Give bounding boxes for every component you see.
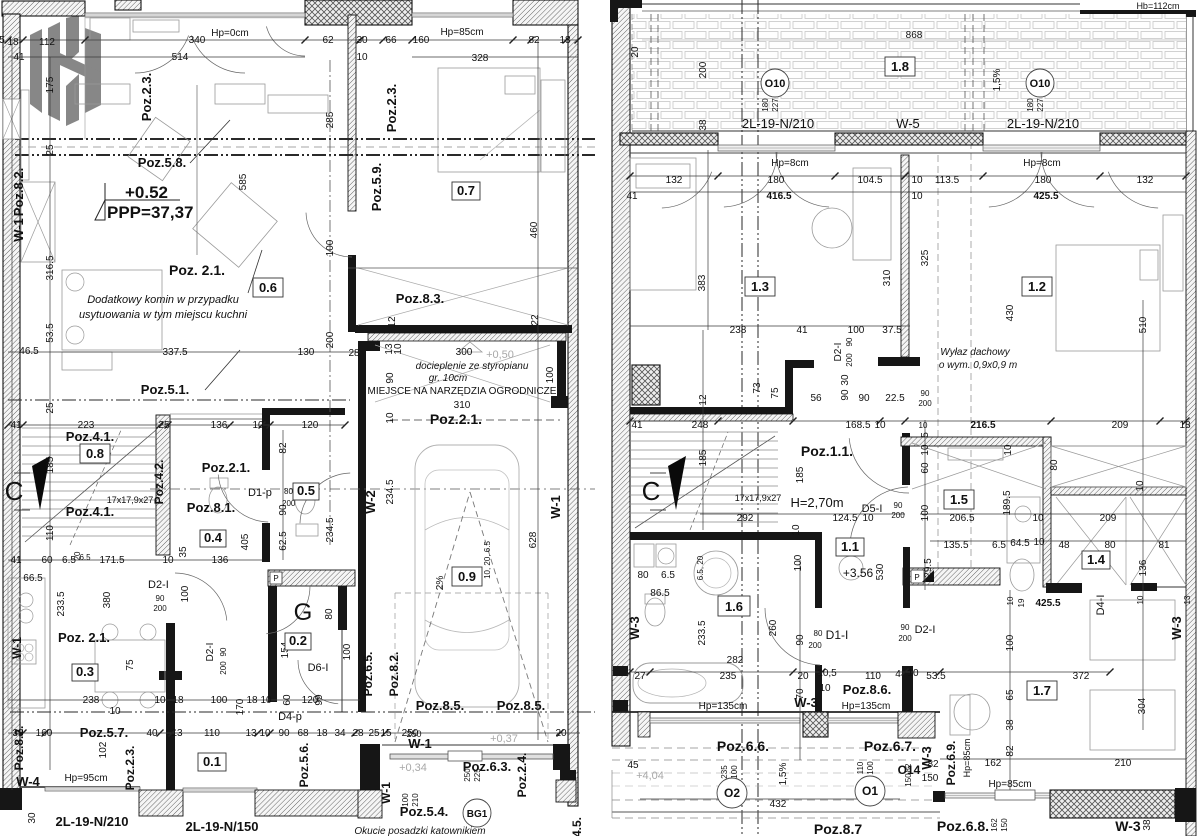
svg-text:Poz.8.3.: Poz.8.3. — [396, 291, 444, 306]
svg-text:28: 28 — [352, 728, 364, 739]
wall left of 1.5 with door D5 — [903, 547, 910, 608]
north arrow C right — [668, 456, 686, 510]
svg-text:100: 100 — [401, 793, 410, 807]
wall x902 bottom — [902, 666, 913, 712]
svg-text:Poz.8.2.: Poz.8.2. — [11, 168, 26, 216]
bed room 0.7 — [438, 68, 540, 172]
svg-text:238: 238 — [83, 695, 100, 706]
1.4 wardrobe crosses — [1056, 497, 1126, 585]
roof symbol small — [458, 342, 482, 352]
svg-text:120: 120 — [302, 420, 319, 431]
svg-text:10, 20, 6.5: 10, 20, 6.5 — [483, 541, 492, 579]
svg-text:Poz.8.5.: Poz.8.5. — [416, 698, 464, 713]
wall below storage — [630, 407, 793, 414]
svg-text:60: 60 — [41, 555, 53, 566]
svg-text:100: 100 — [342, 643, 353, 660]
svg-text:5: 5 — [920, 432, 931, 438]
svg-text:Hb=112cm: Hb=112cm — [1136, 1, 1179, 11]
svg-text:10: 10 — [862, 513, 874, 524]
svg-text:200: 200 — [898, 634, 912, 643]
svg-text:90: 90 — [921, 389, 930, 398]
svg-text:W-3: W-3 — [1169, 616, 1184, 640]
svg-text:Poz.5.7.: Poz.5.7. — [80, 725, 128, 740]
left plan top windows — [85, 13, 305, 17]
svg-text:80: 80 — [324, 608, 335, 620]
section line bottom — [10, 711, 595, 713]
svg-text:100: 100 — [211, 695, 228, 706]
svg-text:200: 200 — [891, 511, 905, 520]
svg-text:2L-19-N/150: 2L-19-N/150 — [186, 819, 259, 834]
svg-text:25: 25 — [45, 144, 56, 156]
svg-text:316.5: 316.5 — [45, 255, 56, 280]
svg-text:Poz.4.1.: Poz.4.1. — [66, 429, 114, 444]
svg-text:6.5: 6.5 — [661, 570, 675, 581]
svg-text:510: 510 — [1138, 316, 1149, 333]
svg-text:56: 56 — [810, 393, 822, 404]
vertical wall x1043 — [1043, 437, 1051, 587]
svg-text:68: 68 — [297, 728, 309, 739]
svg-text:10: 10 — [356, 52, 368, 63]
svg-text:0.3: 0.3 — [76, 664, 94, 679]
svg-text:233.5: 233.5 — [56, 591, 67, 616]
svg-text:90: 90 — [795, 634, 806, 646]
svg-text:160: 160 — [413, 35, 430, 46]
svg-text:75: 75 — [770, 387, 781, 399]
svg-text:6.5: 6.5 — [992, 540, 1006, 551]
svg-text:W-1: W-1 — [548, 495, 563, 519]
svg-text:W-5: W-5 — [896, 116, 920, 131]
svg-text:233.5: 233.5 — [697, 620, 708, 645]
balcony X room wall — [1051, 487, 1186, 495]
svg-text:90: 90 — [156, 594, 165, 603]
svg-text:100: 100 — [793, 554, 804, 571]
storage X tool niche — [375, 345, 550, 402]
svg-text:0.1: 0.1 — [203, 754, 221, 769]
svg-text:0.7: 0.7 — [457, 183, 475, 198]
svg-text:10: 10 — [920, 444, 931, 456]
svg-text:O10: O10 — [1030, 78, 1051, 90]
svg-text:+0,50: +0,50 — [486, 349, 514, 361]
svg-text:62: 62 — [322, 35, 334, 46]
svg-text:200: 200 — [153, 604, 167, 613]
stairs left plan — [22, 428, 156, 536]
svg-text:Hp=85cm: Hp=85cm — [962, 739, 972, 778]
svg-text:416.5: 416.5 — [766, 191, 791, 202]
svg-text:285: 285 — [325, 111, 336, 128]
kitchen counter 1.5 — [903, 568, 1000, 585]
svg-text:+3.56: +3.56 — [843, 566, 874, 580]
roof hatch area — [632, 14, 1186, 131]
svg-text:22: 22 — [530, 314, 541, 326]
svg-text:37.5: 37.5 — [882, 325, 902, 336]
room top walls thin — [630, 152, 1186, 154]
svg-text:Poz.2.4.: Poz.2.4. — [515, 753, 529, 798]
svg-text:90: 90 — [219, 647, 228, 656]
right plan furniture bed 1.3 — [630, 158, 696, 290]
svg-text:13: 13 — [1183, 595, 1192, 604]
svg-text:Poz.5.1.: Poz.5.1. — [141, 382, 189, 397]
svg-text:82: 82 — [904, 763, 913, 772]
svg-text:20: 20 — [555, 728, 567, 739]
svg-text:100: 100 — [180, 585, 191, 602]
table room 0.3 — [95, 640, 165, 692]
dim rows left — [8, 351, 360, 353]
svg-text:4: 4 — [895, 669, 901, 680]
svg-text:D2-I: D2-I — [833, 343, 844, 362]
svg-text:86.5: 86.5 — [650, 588, 670, 599]
svg-text:Hp=0cm: Hp=0cm — [211, 28, 249, 39]
svg-text:1.6: 1.6 — [725, 599, 743, 614]
svg-text:Poz.6.5.: Poz.6.5. — [361, 652, 375, 697]
garage west wall — [358, 341, 366, 712]
wall top of 1.5 — [901, 437, 1051, 446]
svg-text:100: 100 — [1005, 634, 1016, 651]
svg-text:150: 150 — [1000, 818, 1009, 832]
svg-text:41: 41 — [631, 420, 643, 431]
svg-text:38: 38 — [1005, 719, 1016, 731]
left plan bottom walls — [20, 786, 140, 788]
svg-text:383: 383 — [697, 274, 708, 291]
svg-text:250: 250 — [463, 768, 472, 782]
svg-text:18: 18 — [172, 695, 184, 706]
svg-text:Okucie posadzki katownikiem: Okucie posadzki katownikiem — [354, 826, 485, 836]
svg-text:Poz.8.2.: Poz.8.2. — [387, 652, 401, 697]
svg-text:60: 60 — [282, 694, 293, 706]
svg-text:10: 10 — [393, 343, 404, 355]
north arrow C left — [32, 456, 50, 510]
hall walls — [262, 408, 345, 415]
svg-text:o wym. 0,9x0,9 m: o wym. 0,9x0,9 m — [939, 360, 1017, 371]
svg-text:20: 20 — [73, 551, 82, 560]
svg-text:BG1: BG1 — [467, 809, 488, 820]
svg-text:Poz.6.9.: Poz.6.9. — [944, 741, 958, 786]
svg-text:100: 100 — [325, 239, 336, 256]
svg-text:200: 200 — [219, 661, 228, 675]
svg-text:868: 868 — [906, 30, 923, 41]
svg-text:C: C — [642, 476, 661, 506]
svg-text:W-2: W-2 — [363, 490, 378, 514]
right plan top-right wall — [1080, 10, 1196, 17]
svg-text:20: 20 — [630, 46, 641, 58]
svg-text:41: 41 — [13, 52, 25, 63]
svg-text:12: 12 — [387, 316, 398, 328]
svg-text:gr. 10cm: gr. 10cm — [429, 373, 468, 384]
svg-text:340: 340 — [189, 35, 206, 46]
svg-text:Hp=85cm: Hp=85cm — [440, 27, 483, 38]
svg-text:160: 160 — [36, 728, 53, 739]
bathtub 1.6 — [633, 663, 743, 703]
svg-text:O2: O2 — [724, 786, 740, 800]
right plan top corner — [610, 0, 642, 8]
svg-text:D2-I: D2-I — [148, 579, 169, 591]
svg-text:0.4: 0.4 — [204, 530, 223, 545]
svg-text:1.3: 1.3 — [751, 279, 769, 294]
balcony doors windows — [718, 145, 835, 151]
svg-text:15: 15 — [380, 728, 392, 739]
svg-text:Poz.8.1.: Poz.8.1. — [187, 500, 235, 515]
svg-text:210: 210 — [411, 793, 420, 807]
svg-text:73: 73 — [752, 382, 763, 394]
svg-text:6.5, 20: 6.5, 20 — [696, 555, 705, 580]
svg-text:328: 328 — [472, 53, 489, 64]
svg-text:90: 90 — [901, 623, 910, 632]
svg-text:185: 185 — [45, 456, 56, 473]
svg-text:30: 30 — [840, 374, 851, 386]
svg-text:Poz.8.7: Poz.8.7 — [814, 821, 862, 836]
chimney dashes down — [937, 155, 939, 585]
left wall end blocks — [613, 666, 628, 676]
svg-text:150: 150 — [904, 773, 913, 787]
svg-text:docieplenie ze styropianu: docieplenie ze styropianu — [416, 361, 529, 372]
svg-text:209: 209 — [1112, 420, 1129, 431]
svg-text:20: 20 — [797, 671, 809, 682]
svg-text:Hp=135cm: Hp=135cm — [699, 701, 748, 712]
svg-text:130: 130 — [298, 347, 315, 358]
svg-text:Hp=135cm: Hp=135cm — [842, 701, 891, 712]
left interior wall w1 Poz2.3 divider — [348, 15, 356, 211]
left wall w2 — [348, 255, 356, 332]
svg-text:18: 18 — [559, 35, 571, 46]
svg-text:380: 380 — [102, 591, 113, 608]
svg-text:D1-I: D1-I — [826, 628, 849, 642]
svg-text:136: 136 — [211, 420, 228, 431]
svg-text:1.5: 1.5 — [950, 492, 968, 507]
left plan exterior walls — [2, 1, 85, 16]
svg-text:Poz.5.8.: Poz.5.8. — [138, 155, 186, 170]
svg-text:Poz.2.1.: Poz.2.1. — [430, 411, 482, 427]
svg-text:18: 18 — [1179, 420, 1191, 431]
svg-text:W-3: W-3 — [794, 695, 818, 710]
svg-text:Hp=85cm: Hp=85cm — [988, 779, 1031, 790]
svg-text:80: 80 — [284, 487, 293, 496]
door arcs right plan — [849, 438, 909, 493]
svg-text:310: 310 — [882, 269, 893, 286]
svg-text:80: 80 — [1049, 459, 1060, 471]
svg-text:Poz.5.6.: Poz.5.6. — [297, 743, 311, 788]
svg-text:162: 162 — [990, 818, 999, 832]
svg-text:4.5.: 4.5. — [570, 817, 584, 836]
tool niche east wall — [557, 341, 566, 402]
svg-text:1.2: 1.2 — [1028, 279, 1046, 294]
svg-text:110: 110 — [204, 728, 220, 739]
svg-text:Poz.4.1.: Poz.4.1. — [66, 504, 114, 519]
svg-text:185: 185 — [698, 449, 709, 466]
svg-text:100: 100 — [545, 366, 556, 383]
armchair diamonds — [193, 183, 278, 268]
svg-text:22.5: 22.5 — [885, 393, 905, 404]
svg-text:90: 90 — [858, 393, 870, 404]
svg-text:41: 41 — [796, 325, 808, 336]
svg-text:38: 38 — [1142, 819, 1153, 831]
svg-text:132: 132 — [1137, 175, 1154, 186]
1.5 wardrobe crosses — [912, 443, 1046, 489]
svg-text:225: 225 — [473, 768, 482, 782]
svg-text:171.5: 171.5 — [99, 555, 124, 566]
svg-text:Poz.8.5.: Poz.8.5. — [497, 698, 545, 713]
svg-text:110: 110 — [45, 525, 56, 541]
svg-text:17x17,9x27: 17x17,9x27 — [735, 493, 782, 503]
svg-text:D2-I: D2-I — [915, 624, 936, 636]
svg-text:260: 260 — [768, 619, 779, 636]
svg-text:292: 292 — [737, 513, 754, 524]
svg-text:+0.52: +0.52 — [125, 183, 168, 202]
svg-text:200: 200 — [325, 331, 336, 348]
svg-text:1.7: 1.7 — [1033, 683, 1051, 698]
right plan dim rows — [630, 175, 1186, 177]
svg-text:1,5%: 1,5% — [992, 68, 1003, 91]
svg-text:D1-p: D1-p — [248, 487, 272, 499]
svg-text:W-3: W-3 — [919, 746, 934, 770]
kitchen 1.5 counter — [1007, 497, 1040, 563]
svg-text:66: 66 — [385, 35, 397, 46]
svg-text:Poz.4.2.: Poz.4.2. — [152, 460, 166, 505]
roof dimension line — [642, 39, 1186, 41]
svg-text:1,5%: 1,5% — [778, 762, 789, 785]
desk chair 1.3 — [853, 168, 891, 260]
svg-text:10: 10 — [1003, 444, 1014, 456]
svg-text:48: 48 — [1058, 540, 1070, 551]
svg-text:82: 82 — [1005, 745, 1016, 757]
svg-text:25: 25 — [158, 420, 170, 431]
chimney dashes roof — [650, 14, 652, 131]
G room walls — [268, 586, 277, 702]
svg-text:18: 18 — [7, 37, 19, 48]
svg-text:2L-19-N/210: 2L-19-N/210 — [56, 814, 129, 829]
wall 1.6/1.7 vertical — [815, 537, 822, 608]
svg-text:132: 132 — [666, 175, 683, 186]
svg-text:41: 41 — [10, 420, 22, 431]
wall between 1.3 and 1.2 — [901, 155, 909, 357]
svg-text:Poz.1.1.: Poz.1.1. — [801, 443, 853, 459]
right plan bottom wall band — [612, 711, 940, 713]
svg-text:2L-19-N/210: 2L-19-N/210 — [1007, 116, 1079, 131]
svg-text:10: 10 — [1033, 537, 1045, 548]
svg-text:D4-I: D4-I — [1095, 595, 1107, 616]
terrace dashed lines — [612, 747, 935, 749]
svg-text:MIEJSCE NA NARZĘDZIA OGRODNICZ: MIEJSCE NA NARZĘDZIA OGRODNICZE — [368, 386, 557, 397]
svg-text:585: 585 — [238, 173, 249, 190]
svg-text:325: 325 — [920, 249, 931, 266]
svg-text:13: 13 — [245, 728, 257, 739]
svg-text:10: 10 — [911, 175, 923, 186]
svg-text:282: 282 — [727, 655, 744, 666]
svg-text:65: 65 — [1005, 689, 1016, 701]
svg-text:162: 162 — [985, 758, 1002, 769]
dining table — [62, 270, 162, 350]
svg-text:H=2,70m: H=2,70m — [790, 495, 843, 510]
svg-text:10: 10 — [252, 420, 264, 431]
wall kitchen small — [1046, 583, 1082, 593]
bath room 0.4 fixtures — [295, 486, 315, 514]
svg-text:10: 10 — [1032, 513, 1044, 524]
svg-text:10: 10 — [907, 668, 919, 679]
svg-text:238: 238 — [730, 325, 747, 336]
svg-text:0.6: 0.6 — [259, 280, 277, 295]
svg-text:Poz. 2.1.: Poz. 2.1. — [58, 630, 110, 645]
bottom-left corner block — [0, 788, 22, 810]
section line A-A — [15, 138, 595, 140]
svg-text:60: 60 — [920, 462, 931, 474]
svg-text:Poz.6.6.: Poz.6.6. — [717, 738, 769, 754]
svg-text:13: 13 — [171, 728, 183, 739]
storage 1.3 xbox — [632, 365, 660, 405]
svg-text:90: 90 — [278, 728, 290, 739]
svg-text:99: 99 — [314, 694, 325, 706]
svg-text:110: 110 — [865, 671, 881, 682]
svg-text:432: 432 — [770, 799, 787, 810]
svg-text:168.5: 168.5 — [845, 420, 870, 431]
right plan window head bands — [620, 133, 718, 145]
svg-text:C: C — [5, 476, 24, 506]
svg-text:90: 90 — [894, 501, 903, 510]
svg-text:170: 170 — [235, 698, 246, 715]
svg-text:10: 10 — [874, 420, 886, 431]
tool niche top wall — [355, 325, 572, 333]
wardrobe strip left — [21, 90, 29, 180]
svg-text:216.5: 216.5 — [970, 420, 995, 431]
svg-text:0.8: 0.8 — [86, 446, 104, 461]
svg-text:175: 175 — [45, 76, 56, 93]
svg-text:38: 38 — [698, 119, 709, 131]
svg-text:80: 80 — [814, 629, 823, 638]
svg-text:O1: O1 — [862, 784, 878, 798]
svg-text:135.5: 135.5 — [943, 540, 968, 551]
svg-text:10: 10 — [819, 683, 831, 694]
misc 1.7 furniture — [1090, 690, 1175, 750]
bottom-right hatch band — [1050, 790, 1175, 818]
svg-text:10: 10 — [259, 728, 271, 739]
svg-text:310: 310 — [454, 400, 471, 411]
svg-text:200: 200 — [918, 399, 932, 408]
svg-text:200: 200 — [698, 61, 709, 78]
svg-text:29.5: 29.5 — [923, 558, 934, 578]
svg-text:100: 100 — [920, 504, 931, 521]
upper cabinets — [75, 84, 130, 104]
svg-text:185: 185 — [795, 466, 806, 483]
svg-text:2L-19-N/210: 2L-19-N/210 — [742, 116, 814, 131]
svg-text:110: 110 — [856, 761, 865, 774]
svg-text:234.5: 234.5 — [325, 517, 336, 542]
svg-text:10: 10 — [109, 706, 121, 717]
svg-text:460: 460 — [529, 221, 540, 238]
svg-text:180: 180 — [1026, 98, 1035, 112]
svg-text:Poz.8.2.: Poz.8.2. — [12, 726, 26, 771]
svg-text:30: 30 — [27, 812, 38, 824]
svg-text:81: 81 — [1158, 540, 1170, 551]
svg-text:Poz.2.1.: Poz.2.1. — [202, 460, 250, 475]
bathroom top wall — [630, 532, 822, 540]
right plan left exterior wall — [612, 0, 630, 746]
svg-text:209: 209 — [1100, 513, 1117, 524]
svg-text:12: 12 — [698, 394, 709, 406]
svg-text:17x17,9x27: 17x17,9x27 — [107, 495, 154, 505]
svg-text:PPP=37,37: PPP=37,37 — [107, 203, 194, 222]
dimension lines left top — [84, 16, 86, 139]
garage door swing dashed — [395, 492, 470, 742]
svg-text:W-3: W-3 — [627, 616, 642, 640]
svg-text:10: 10 — [1135, 480, 1146, 492]
hall boundary lines — [170, 413, 262, 415]
svg-text:180: 180 — [1035, 175, 1052, 186]
svg-text:206.5: 206.5 — [949, 513, 974, 524]
svg-text:Hp=8cm: Hp=8cm — [771, 158, 809, 169]
svg-text:Poz.6.8.: Poz.6.8. — [937, 818, 989, 834]
svg-text:337.5: 337.5 — [162, 347, 187, 358]
svg-text:W-1: W-1 — [379, 782, 393, 804]
svg-text:1.4: 1.4 — [1087, 552, 1106, 567]
wc room 0.5 fixtures — [209, 487, 227, 513]
svg-text:430: 430 — [1005, 304, 1016, 321]
